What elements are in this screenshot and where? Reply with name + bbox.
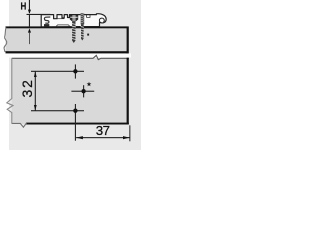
hole cross 3 + 37 left extension	[75, 104, 76, 141]
reference dot	[87, 34, 89, 36]
plate left bottom dark patch	[44, 24, 49, 26]
panel bar fill	[6, 27, 129, 52]
plate bottom trapezoid bump	[56, 25, 71, 27]
plan rect right edge	[127, 58, 129, 125]
37 dimension line	[76, 137, 130, 138]
panel bar right end edge	[127, 27, 129, 54]
panel bar left break mark	[4, 28, 7, 53]
svg-text:37: 37	[96, 123, 110, 138]
hole extension line bottom (y=110.7)	[31, 110, 84, 111]
hole cross 1	[75, 64, 76, 78]
gray paper area	[9, 0, 141, 150]
plate inner hook detail	[99, 18, 104, 22]
star marker	[87, 82, 92, 87]
screw 2 (pre-mounted, hatched head)	[81, 13, 85, 24]
white gap band between views	[5, 53, 131, 57]
panel bar top edge	[6, 26, 129, 28]
panel bar bottom edge	[6, 51, 129, 53]
screw 1 shank with threads	[72, 21, 75, 43]
plan rect top edge with break squiggle	[12, 55, 129, 59]
plate small step detail	[87, 15, 90, 18]
32 dimension line	[35, 71, 36, 110]
screw 2 shank	[81, 24, 84, 40]
screw 1 (euro screw) head	[70, 15, 78, 21]
plan rect bottom edge	[26, 123, 129, 125]
plan rect bottom-left break jag	[12, 123, 27, 127]
plan rect fill	[12, 58, 128, 124]
plan rect left edge with break	[7, 58, 13, 123]
H extension line (plate top surface)	[27, 14, 51, 15]
plate slot bottoms line	[57, 18, 64, 20]
mounting plate profile body (white)	[41, 14, 106, 27]
37 right extension line	[129, 125, 130, 141]
hole extension line top (y=71.3)	[31, 71, 84, 72]
hole cross 2	[71, 91, 94, 92]
page background	[0, 0, 150, 150]
svg-text:32: 32	[20, 78, 35, 97]
plate spring lever curve	[44, 17, 50, 23]
svg-text:H: H	[21, 1, 27, 12]
H dimension vertical line	[29, 0, 30, 13]
